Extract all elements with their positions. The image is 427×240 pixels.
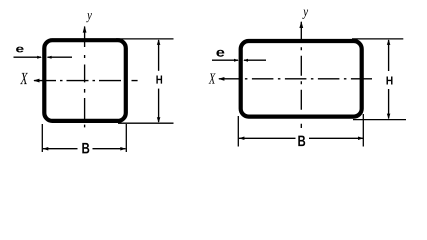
right label B — [298, 136, 305, 147]
right e leader line outer — [212, 59, 238, 61]
right e inner arrowhead — [243, 59, 248, 62]
left label e — [16, 47, 24, 53]
left y-axis arrowhead — [83, 26, 87, 33]
right vertical centerline (y axis) — [300, 22, 302, 128]
left e outer arrowhead — [37, 56, 42, 59]
left B dimension line left segment — [43, 148, 78, 150]
right e leader line inner — [244, 59, 266, 61]
left B dimension line right segment — [93, 148, 126, 150]
left H top extension line — [116, 38, 174, 40]
right horizontal centerline (X axis) — [219, 78, 372, 80]
right X-axis arrowhead — [218, 77, 224, 81]
right label e — [216, 50, 224, 57]
right B dimension line right segment — [309, 137, 363, 139]
left section outline (square hollow tube) — [44, 40, 126, 121]
right H up arrowhead — [387, 39, 391, 45]
right B dimension line left segment — [239, 137, 296, 139]
right section outline (rectangular hollow tube) — [241, 41, 362, 117]
left H dimension line lower segment — [158, 89, 160, 122]
left e leader line outer — [14, 56, 42, 58]
left B right extension line — [125, 124, 127, 152]
right B left extension line — [237, 116, 239, 147]
right y-axis arrowhead — [299, 21, 303, 28]
right B right arrowhead — [358, 137, 364, 141]
left label y — [86, 13, 92, 22]
right label y — [302, 10, 308, 19]
left B left arrowhead — [43, 147, 49, 151]
left e inner arrowhead — [47, 56, 52, 59]
left H down arrowhead — [157, 117, 161, 123]
right B left arrowhead — [239, 137, 245, 141]
right H dimension line upper segment — [388, 40, 390, 71]
right label X — [209, 74, 216, 84]
left H bottom extension line — [118, 122, 174, 124]
left B left extension line — [41, 124, 43, 152]
right H down arrowhead — [387, 114, 391, 120]
left vertical centerline (y axis) — [84, 27, 86, 128]
right e outer arrowhead — [234, 59, 239, 62]
right label H — [387, 77, 393, 85]
left B right arrowhead — [120, 147, 126, 151]
left horizontal centerline (X axis) — [34, 80, 138, 82]
right H dimension line lower segment — [388, 89, 390, 119]
left label X — [20, 73, 28, 84]
left e leader line inner — [48, 56, 73, 58]
right H top extension line — [352, 38, 403, 40]
left label H — [156, 76, 162, 84]
left X-axis arrowhead — [33, 79, 39, 83]
left H dimension line upper segment — [158, 40, 160, 71]
right B right extension line — [362, 114, 364, 147]
left H up arrowhead — [157, 39, 161, 45]
left label B — [82, 143, 89, 154]
right H bottom extension line — [353, 119, 406, 121]
